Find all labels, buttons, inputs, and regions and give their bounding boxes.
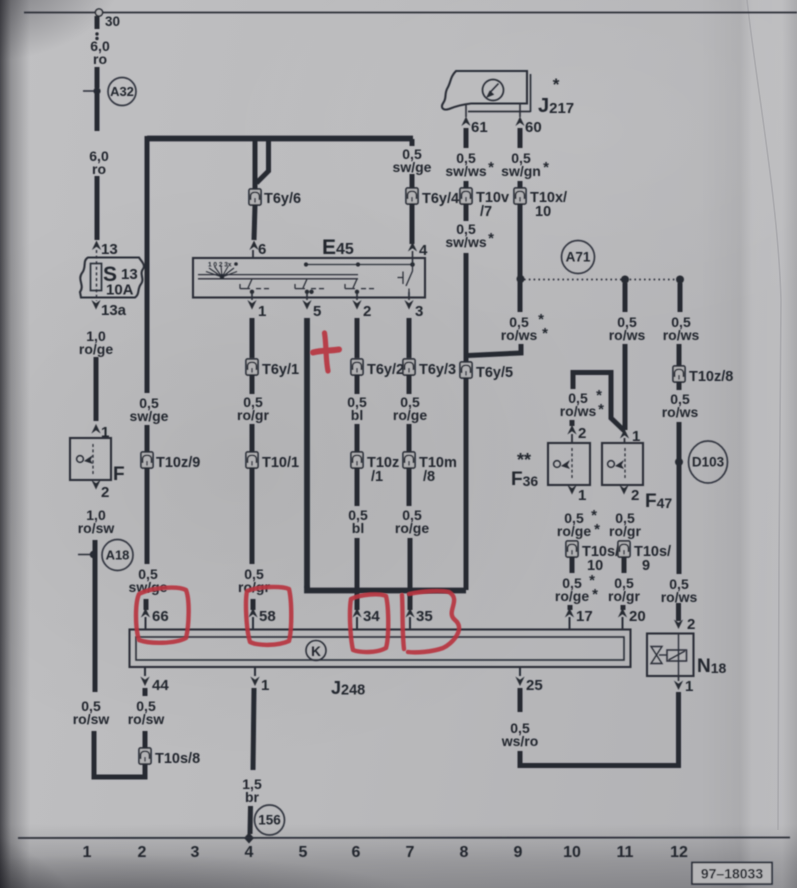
wire 0,5 ro/ws from A71 bbox=[623, 283, 628, 312]
svg-text:T6y/1: T6y/1 bbox=[262, 362, 299, 378]
wire 0,5 ro/ws to F47/1 bbox=[623, 344, 628, 430]
wire 0,5 ro/ws from A71 bbox=[678, 283, 683, 312]
svg-text:4: 4 bbox=[245, 844, 254, 861]
wire 0,5 sw/ws down bbox=[464, 253, 469, 364]
E45 hazard contact at pin 4 bbox=[398, 265, 413, 298]
svg-text:F36: F36 bbox=[511, 469, 538, 490]
pin 1 stem bbox=[251, 292, 253, 300]
connector T10z/1 bbox=[351, 452, 363, 468]
svg-text:ro/sw: ro/sw bbox=[78, 520, 115, 536]
connector T10s/10 bbox=[566, 541, 578, 557]
connector T6y/4 bbox=[406, 188, 418, 204]
connector T6y/6 bbox=[249, 189, 261, 205]
wire to E45 pin4 bbox=[410, 204, 415, 244]
wire 6,0 ro to fuse bbox=[95, 176, 100, 240]
svg-text:ws/ro: ws/ro bbox=[501, 733, 539, 749]
wire 0,5 ro/ws bbox=[677, 344, 682, 366]
control unit J248 bbox=[130, 630, 631, 668]
wire to 66 bbox=[144, 599, 149, 610]
pin 60 stem bbox=[519, 104, 521, 117]
switch F36 bbox=[548, 443, 590, 485]
pin 3 stem bbox=[408, 292, 410, 300]
wire 0,5 bl bbox=[355, 424, 360, 452]
wire 6,0 ro bbox=[95, 67, 100, 88]
junction A71 tap bbox=[676, 276, 684, 284]
svg-text:F: F bbox=[113, 464, 125, 485]
paper fold edge (decorative) bbox=[747, 0, 781, 830]
wire 0,5 bl bbox=[355, 375, 360, 394]
connector T10z/8 bbox=[673, 366, 685, 382]
wire 0,5 sw/ge bbox=[410, 174, 415, 188]
wire 0,5 bl to 34 bbox=[355, 538, 360, 610]
fuse S13 10A bbox=[80, 258, 144, 298]
svg-text:/1: /1 bbox=[371, 469, 383, 485]
terminal 3 arrow E45 bbox=[404, 300, 413, 310]
svg-text:ro: ro bbox=[93, 51, 107, 67]
wire 0,5 ro/gr bbox=[250, 424, 255, 452]
terminal 58 arrow bbox=[248, 608, 257, 618]
wire to E45 pin6 bbox=[254, 205, 255, 240]
terminal 35 stem bbox=[409, 617, 411, 630]
E45 contact dot bbox=[305, 290, 309, 294]
svg-text:8: 8 bbox=[460, 844, 469, 861]
E45 selector pivot bbox=[220, 275, 224, 279]
wire 0,5 ro/ge bbox=[570, 557, 575, 573]
svg-text:ro/gr: ro/gr bbox=[608, 588, 640, 604]
svg-text:12: 12 bbox=[670, 844, 688, 861]
svg-text:T6y/4: T6y/4 bbox=[422, 191, 459, 207]
terminal 1 arrow N18 bbox=[674, 681, 683, 691]
wire 1,0 ro/sw / 0,5 ro/sw bbox=[93, 540, 98, 692]
svg-text:sw/ws: sw/ws bbox=[445, 163, 486, 179]
wire bus 30-feed horizontal bbox=[147, 136, 413, 142]
svg-text:T6y/6: T6y/6 bbox=[264, 191, 301, 207]
wire 0,5 ro/ws F36/2 loop bbox=[573, 373, 625, 432]
svg-text:sw/ge: sw/ge bbox=[393, 159, 432, 175]
svg-text:T10s/8: T10s/8 bbox=[155, 751, 200, 767]
terminal 2 arrow F36 bbox=[567, 425, 576, 435]
svg-text:10: 10 bbox=[563, 844, 581, 861]
wire E45/1 down bbox=[250, 318, 255, 358]
N18 internal line bbox=[678, 634, 680, 677]
svg-text:ro/ws: ro/ws bbox=[663, 327, 700, 343]
wire 0,5 sw/ws bbox=[464, 204, 469, 221]
junction D103 bbox=[675, 458, 683, 466]
pin 61 stem bbox=[465, 104, 467, 117]
J217 frame shadow bbox=[530, 74, 532, 112]
pin4 stem bbox=[412, 251, 414, 265]
wire 0,5 sw/ws bbox=[464, 128, 469, 148]
svg-text:T10z/9: T10z/9 bbox=[156, 455, 200, 471]
terminal 4 arrow bbox=[408, 242, 417, 252]
terminal 13 arrow bbox=[92, 241, 101, 251]
svg-text:97–18033: 97–18033 bbox=[701, 866, 764, 882]
terminal 1 arrow F47 bbox=[620, 429, 629, 439]
wire 0,5 ro/gr bbox=[250, 468, 255, 564]
red mark around 35 bbox=[402, 595, 404, 649]
pin6 stem bbox=[252, 250, 254, 258]
connector T6y/3 bbox=[403, 359, 415, 375]
terminal 20 stem bbox=[622, 617, 624, 630]
svg-text:1: 1 bbox=[261, 677, 269, 694]
svg-text:25: 25 bbox=[526, 677, 543, 694]
svg-text:J217: J217 bbox=[538, 95, 574, 117]
wire 6,0 ro bbox=[95, 91, 100, 131]
E45 internal selector starburst bbox=[206, 266, 237, 278]
wire 0,5 ro/ws bbox=[677, 382, 682, 390]
connector T6y/2 bbox=[351, 359, 363, 375]
terminal 44 stem bbox=[144, 667, 146, 676]
svg-text:*: * bbox=[543, 159, 549, 176]
E45 contact rail double line bbox=[198, 274, 358, 276]
switch F bbox=[70, 438, 111, 480]
switch E45 (turn signal / hazard switch) bbox=[193, 258, 425, 298]
node A18 bbox=[102, 540, 133, 571]
svg-text:E45: E45 bbox=[322, 236, 354, 259]
connector T10s/9 bbox=[618, 541, 630, 557]
svg-text:1: 1 bbox=[685, 678, 693, 695]
svg-text:A71: A71 bbox=[566, 250, 591, 265]
svg-text:20: 20 bbox=[629, 608, 646, 625]
terminal 44 arrow bbox=[140, 677, 149, 687]
svg-text:6: 6 bbox=[258, 241, 266, 258]
stub at A18 bbox=[78, 554, 93, 556]
wire 0,5 ro/sw bbox=[143, 688, 148, 696]
svg-text:ro/ws: ro/ws bbox=[560, 403, 597, 419]
svg-text:ro/sw: ro/sw bbox=[73, 711, 110, 727]
wire 1,5 br bbox=[253, 688, 254, 770]
wire 0,5 sw/ws bbox=[464, 181, 469, 188]
J217 instrument symbol K bbox=[483, 80, 504, 101]
terminal 34 stem bbox=[356, 617, 358, 630]
ground 156 bbox=[255, 805, 285, 835]
terminal 34 arrow bbox=[352, 608, 361, 618]
svg-text:ro/ws: ro/ws bbox=[661, 589, 698, 605]
svg-text:66: 66 bbox=[152, 608, 169, 625]
terminal 58 stem bbox=[252, 617, 254, 630]
svg-text:*: * bbox=[488, 159, 494, 176]
wire 1,0 ro/ge bbox=[94, 357, 99, 421]
wire break dot bbox=[95, 37, 98, 40]
svg-text:/7: /7 bbox=[480, 204, 492, 220]
svg-text:1: 1 bbox=[578, 487, 586, 504]
wire 0,5 ro/sw bottom-left bend bbox=[94, 731, 145, 777]
E45 contact group x=252 bbox=[240, 279, 269, 289]
connector T6y/5 bbox=[460, 362, 472, 378]
terminal 1 arrow F36 bbox=[567, 485, 576, 495]
svg-text:34: 34 bbox=[363, 608, 380, 625]
svg-text:ro/sw: ro/sw bbox=[128, 711, 165, 727]
svg-text:*: * bbox=[542, 325, 548, 342]
svg-text:2: 2 bbox=[138, 844, 147, 861]
svg-text:2: 2 bbox=[631, 487, 639, 504]
svg-text:sw/gn: sw/gn bbox=[501, 163, 541, 179]
connector T10x/10 bbox=[514, 188, 526, 204]
wire 0,5 sw/ge bbox=[145, 468, 150, 564]
wire 0,5 ro/ge bbox=[407, 468, 412, 506]
F47 actuator dashes bbox=[624, 448, 626, 480]
terminal 35 arrow bbox=[405, 608, 414, 618]
svg-text:ro/ge: ro/ge bbox=[557, 523, 591, 539]
svg-text:ro: ro bbox=[92, 161, 106, 177]
connector T10s/8 bbox=[139, 748, 151, 764]
svg-text:1: 1 bbox=[258, 303, 266, 320]
svg-text:*: * bbox=[594, 521, 600, 538]
pin2 stem F36 bbox=[571, 434, 573, 443]
svg-text:ro/ge: ro/ge bbox=[79, 341, 113, 357]
wire to junction bar bbox=[464, 378, 469, 590]
stub at A32 bbox=[83, 90, 97, 92]
junction A32 bbox=[93, 87, 100, 94]
wire E45/2 down bbox=[355, 318, 360, 358]
svg-text:58: 58 bbox=[259, 608, 276, 625]
connector T10m/8 bbox=[403, 452, 415, 468]
pin 2 stem bbox=[356, 292, 358, 300]
svg-text:2: 2 bbox=[578, 425, 586, 442]
svg-text:44: 44 bbox=[152, 677, 169, 694]
wire E45/5 heavy down bbox=[304, 318, 310, 588]
terminal 13a arrow bbox=[91, 300, 100, 310]
wire junction bar to T6y/5 branch bbox=[307, 586, 466, 591]
svg-text:13: 13 bbox=[121, 266, 138, 283]
svg-text:10A: 10A bbox=[106, 282, 134, 299]
svg-text:T10z/8: T10z/8 bbox=[689, 369, 733, 385]
svg-text:*: * bbox=[598, 401, 604, 418]
svg-text:T10s/: T10s/ bbox=[634, 544, 671, 560]
svg-text:5: 5 bbox=[299, 844, 308, 861]
N18 valve symbol bbox=[651, 647, 662, 664]
terminal 66 arrow bbox=[141, 608, 150, 618]
node A32 bbox=[108, 78, 136, 106]
svg-text:T6y/5: T6y/5 bbox=[476, 365, 513, 381]
wire to 17 bbox=[568, 605, 573, 610]
svg-text:13: 13 bbox=[101, 241, 118, 258]
E45 upper link line bbox=[306, 264, 413, 266]
connector T10z/9 bbox=[141, 452, 153, 468]
F36 actuator dashes bbox=[571, 448, 573, 480]
wire bus leg to T6y/6 bbox=[253, 139, 258, 190]
node D103 bbox=[689, 441, 728, 483]
ground 156 junction bbox=[244, 833, 254, 844]
wire to N18/2 bbox=[676, 603, 681, 621]
wire 0,5 sw/gn bbox=[518, 181, 523, 188]
svg-text:sw/ws: sw/ws bbox=[445, 234, 486, 250]
wire 0,5 ro/sw bbox=[143, 731, 148, 749]
svg-text:3: 3 bbox=[415, 303, 423, 320]
wire bus second leg merging at T6y/6 bbox=[257, 139, 269, 183]
terminal 17 stem bbox=[569, 617, 571, 630]
terminal 61 arrow bbox=[461, 117, 470, 127]
wire bend into T6y/5 branch bbox=[468, 344, 521, 356]
red circle around 58 bbox=[246, 587, 291, 645]
svg-text:2: 2 bbox=[363, 303, 371, 320]
svg-text:*: * bbox=[488, 230, 494, 247]
wire bus drop right bbox=[410, 139, 415, 146]
E45 link dot bbox=[356, 262, 360, 266]
wire 0,5 sw/ge bbox=[145, 425, 150, 452]
node A71 dotted link bbox=[524, 279, 681, 281]
E45 contact group x=307 bbox=[295, 279, 324, 289]
wire 0,5 ro/ws bbox=[677, 422, 682, 574]
svg-text:**: ** bbox=[517, 450, 531, 470]
wire 0,5 ro/ge bbox=[407, 375, 412, 394]
junction A71 bbox=[517, 275, 525, 283]
svg-text:61: 61 bbox=[471, 119, 488, 136]
wire to 58 bbox=[251, 599, 256, 610]
node 30 tap circle bbox=[95, 9, 102, 16]
svg-text:9: 9 bbox=[514, 844, 523, 861]
svg-text:ro/gr: ro/gr bbox=[609, 523, 641, 539]
terminal 5 arrow E45 bbox=[302, 300, 311, 310]
terminal 2 arrow F bbox=[91, 480, 100, 490]
svg-text:A18: A18 bbox=[106, 548, 130, 563]
switch F47 bbox=[602, 443, 643, 485]
wire 1,5 br to ground bbox=[248, 806, 254, 834]
E45 contact dot bbox=[250, 290, 254, 294]
svg-text:2: 2 bbox=[101, 484, 109, 501]
wire 0,5 bl bbox=[355, 468, 360, 506]
svg-text:ro/ge: ro/ge bbox=[393, 407, 427, 423]
svg-text:9: 9 bbox=[642, 558, 650, 574]
svg-text:ro/ws: ro/ws bbox=[662, 404, 699, 420]
terminal 1 arrow E45 bbox=[247, 300, 256, 310]
wire terminal-30 rail bbox=[24, 12, 797, 14]
svg-text:17: 17 bbox=[576, 608, 593, 625]
terminal 25 stem bbox=[519, 667, 521, 676]
svg-text:156: 156 bbox=[258, 813, 281, 828]
svg-text:/8: /8 bbox=[423, 469, 435, 485]
svg-text:br: br bbox=[245, 789, 260, 805]
svg-text:ro/ge: ro/ge bbox=[395, 520, 429, 536]
wire 0,5 ro/ge bbox=[407, 424, 412, 452]
valve N18 (EGR valve) bbox=[647, 634, 694, 677]
svg-text:K: K bbox=[311, 644, 321, 659]
connector T6y/1 bbox=[246, 359, 258, 375]
svg-text:60: 60 bbox=[525, 119, 542, 136]
red circle around 66 bbox=[136, 588, 189, 643]
E45 contact dot bbox=[355, 290, 359, 294]
pin 5 stem bbox=[306, 292, 308, 300]
wire 0,5 ro/gr bbox=[622, 557, 627, 573]
svg-text:1 0 2 3x: 1 0 2 3x bbox=[208, 262, 232, 269]
svg-text:11: 11 bbox=[617, 844, 634, 861]
svg-text:*: * bbox=[553, 75, 560, 94]
svg-text:bl: bl bbox=[352, 520, 364, 536]
svg-text:N18: N18 bbox=[697, 656, 727, 677]
svg-text:1: 1 bbox=[83, 844, 92, 861]
wire 0,5 ro/ws bbox=[518, 204, 523, 312]
terminal 2 arrow F47 bbox=[619, 485, 628, 495]
svg-text:bl: bl bbox=[351, 407, 363, 423]
svg-text:3: 3 bbox=[191, 844, 200, 861]
wire 0,5 ws/ro return bend bbox=[520, 692, 679, 766]
wire 0,5 sw/ge from bus bbox=[145, 136, 150, 393]
svg-text:F47: F47 bbox=[645, 491, 672, 512]
pin1 stem N18 bbox=[678, 676, 680, 681]
E45 stray dot bbox=[234, 262, 238, 266]
terminal 17 arrow bbox=[565, 608, 574, 618]
switch F actuator dashes bbox=[92, 444, 94, 474]
terminal 25 arrow bbox=[515, 677, 524, 687]
ground rail bbox=[18, 837, 790, 840]
wire E45/3 down bbox=[407, 318, 412, 358]
J248 symbol K bbox=[306, 641, 326, 661]
svg-text:sw/ge: sw/ge bbox=[130, 408, 169, 424]
wire break dot bbox=[95, 32, 98, 35]
svg-text:D103: D103 bbox=[692, 455, 725, 470]
svg-text:A32: A32 bbox=[110, 84, 134, 99]
svg-text:ro/ws: ro/ws bbox=[501, 327, 538, 343]
svg-text:5: 5 bbox=[313, 303, 321, 320]
wire to F36/2 bbox=[570, 420, 575, 426]
svg-text:10: 10 bbox=[535, 204, 551, 220]
drawing number 97-18033 bbox=[692, 863, 772, 885]
control unit J217 bbox=[442, 71, 527, 110]
svg-text:4: 4 bbox=[419, 242, 428, 259]
red circle around 34 bbox=[350, 594, 388, 652]
E45 contact dot bbox=[309, 290, 313, 294]
fuse element dashed link bbox=[96, 250, 98, 301]
wire 0,5 sw/gn bbox=[518, 128, 523, 148]
svg-text:35: 35 bbox=[416, 608, 433, 625]
node A71 bbox=[562, 241, 595, 274]
svg-text:ro/gr: ro/gr bbox=[237, 407, 269, 423]
E45 link dot bbox=[410, 262, 415, 267]
svg-text:T6y/3: T6y/3 bbox=[419, 362, 456, 378]
svg-text:T6y/2: T6y/2 bbox=[367, 362, 404, 378]
terminal 66 stem bbox=[145, 617, 147, 630]
svg-text:2: 2 bbox=[687, 616, 695, 633]
wire 0,5 ws/ro bbox=[518, 688, 523, 712]
E45 contact group x=357 bbox=[345, 279, 374, 289]
wire 6,0 ro from 30 bbox=[95, 16, 100, 29]
wire 0,5 ro/ge to 35 bbox=[408, 538, 413, 610]
connector T10v/7 bbox=[460, 188, 472, 204]
connector T10/1 bbox=[246, 452, 258, 468]
terminal 60 arrow bbox=[515, 117, 524, 127]
junction at 35 bbox=[407, 587, 414, 594]
svg-text:6: 6 bbox=[352, 844, 361, 861]
svg-text:13a: 13a bbox=[101, 302, 127, 319]
svg-text:ro/ge: ro/ge bbox=[555, 588, 589, 604]
junction A18 bbox=[90, 551, 98, 559]
svg-text:ro/ws: ro/ws bbox=[609, 327, 646, 343]
svg-text:*: * bbox=[592, 586, 598, 603]
svg-text:J248: J248 bbox=[331, 678, 365, 699]
terminal 1 arrow J248 bbox=[250, 677, 259, 687]
terminal 6 arrow bbox=[249, 241, 258, 251]
terminal 2 arrow N18 bbox=[674, 620, 683, 630]
svg-text:T10/1: T10/1 bbox=[262, 455, 299, 471]
terminal 2 arrow E45 bbox=[352, 300, 361, 310]
terminal 20 arrow bbox=[618, 608, 627, 618]
terminal 1 arrow F bbox=[91, 424, 100, 434]
E45 link dot bbox=[304, 262, 308, 266]
red cross annotation bbox=[325, 333, 329, 371]
junction A71 tap bbox=[621, 276, 629, 284]
terminal 1 stem bbox=[254, 667, 256, 676]
wire 0,5 ro/gr bbox=[250, 375, 255, 394]
wire to 20 bbox=[621, 605, 626, 610]
svg-text:7: 7 bbox=[406, 844, 415, 861]
svg-text:30: 30 bbox=[105, 14, 120, 29]
pin1 stem F47 bbox=[624, 438, 626, 443]
